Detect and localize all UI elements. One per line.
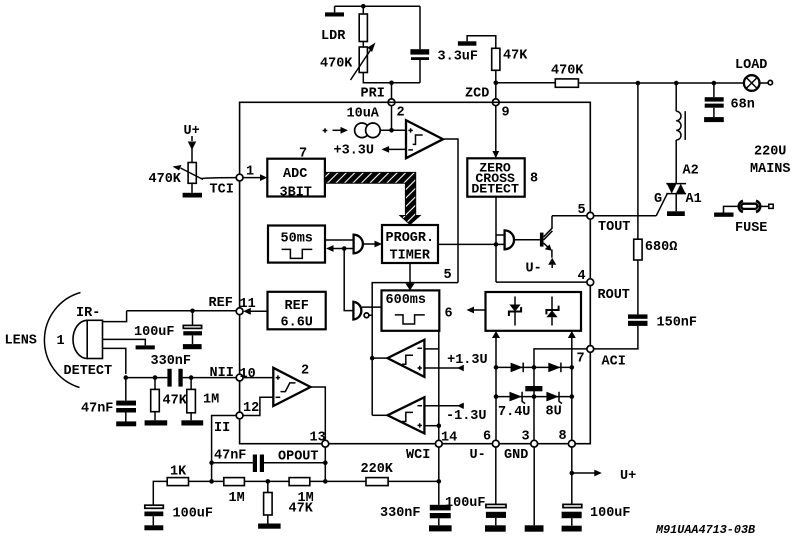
wire rail: [244, 480, 289, 482]
svg-text:470K: 470K: [149, 172, 182, 187]
svg-text:MAINS: MAINS: [750, 162, 791, 177]
resistor 1K: [167, 465, 188, 486]
svg-text:1M: 1M: [298, 491, 314, 506]
svg-text:600ms: 600ms: [386, 293, 427, 308]
capacitor 330nF (WCI): [380, 505, 452, 532]
svg-text:6.6U: 6.6U: [281, 316, 313, 331]
svg-text:470K: 470K: [551, 64, 584, 79]
resistor LDR: [321, 14, 367, 44]
zener row 7.4U / 8U: [494, 394, 574, 399]
svg-text:A1: A1: [686, 192, 702, 207]
triac A2/A1/G: [654, 163, 702, 216]
wire pin12 to op-amp: [243, 397, 273, 415]
svg-text:M91UAA4713-03B: M91UAA4713-03B: [655, 523, 755, 537]
node REF pin 11: [209, 296, 256, 315]
node junction above LDR: [361, 4, 366, 9]
junction inductor branch: [674, 81, 679, 86]
capacitor 100uF (V+): [562, 504, 631, 531]
svg-text:GND: GND: [504, 448, 528, 463]
svg-text:2: 2: [301, 364, 309, 379]
wire top rail: [335, 5, 420, 7]
svg-text:150nF: 150nF: [657, 316, 698, 331]
wire AND1 to timer with arrow: [363, 241, 382, 248]
signal ground bar (lead 2): [136, 345, 155, 349]
svg-text:1M: 1M: [229, 491, 245, 506]
svg-text:5: 5: [444, 268, 452, 283]
svg-text:REF: REF: [285, 299, 309, 314]
svg-text:12: 12: [243, 401, 259, 416]
wire comp2 plus to WCI rail: [424, 423, 441, 428]
svg-text:A2: A2: [683, 163, 699, 178]
mains terminal bar (top left): [325, 6, 344, 16]
diode D3: [511, 363, 524, 373]
svg-text:FUSE: FUSE: [735, 221, 767, 236]
resistor 470K (load line): [551, 64, 584, 88]
ground pin 3: [525, 447, 544, 532]
block 50ms one-shot: [268, 226, 325, 263]
svg-text:68n: 68n: [731, 98, 755, 113]
wire pin10 to op-amp: [243, 377, 273, 379]
svg-text:ACI: ACI: [602, 354, 626, 369]
svg-text:ZCD: ZCD: [465, 86, 489, 101]
svg-text:9: 9: [502, 105, 510, 120]
svg-text:220U: 220U: [754, 144, 786, 159]
capacitor 68n: [704, 83, 755, 122]
resistor 1M (b): [289, 478, 314, 506]
junction PRI to comparator: [389, 106, 394, 133]
wire block left pin down with arrow: [492, 331, 500, 440]
block ZERO CROSS DETECT pin 8: [467, 158, 538, 196]
junction bottom rail pin13: [323, 479, 328, 484]
wire WCI rail (600ms to pin 14): [438, 331, 440, 441]
wire pin1 to ADC with arrow: [243, 174, 267, 181]
and-gate U2 (600ms input): [353, 302, 381, 320]
svg-text:13: 13: [310, 430, 326, 445]
wire PRI drop: [391, 83, 393, 99]
svg-text:11: 11: [240, 297, 256, 312]
resistor 47K (bottom): [258, 481, 314, 528]
svg-text:2: 2: [397, 106, 405, 121]
svg-text:TIMER: TIMER: [390, 249, 431, 264]
svg-text:10uA: 10uA: [347, 107, 380, 122]
resistor 680 ohm: [634, 83, 678, 314]
junction comp1 output: [370, 356, 375, 361]
svg-text:II: II: [214, 421, 230, 436]
svg-text:10: 10: [240, 367, 256, 382]
inductor: [676, 83, 685, 184]
potentiometer 470K: [149, 163, 204, 188]
svg-text:U-: U-: [526, 262, 542, 277]
wire LDR to pot: [362, 42, 364, 48]
svg-text:IR-: IR-: [76, 306, 100, 321]
and-gate U1 (timer input): [354, 235, 363, 254]
svg-text:100uF: 100uF: [590, 506, 631, 521]
wire ZCD block to gate: [494, 197, 505, 282]
block ADC 3BIT pin 7: [267, 147, 325, 201]
svg-text:100uF: 100uF: [134, 325, 175, 340]
capacitor 150nF: [594, 314, 697, 349]
wire ZCD to detect block: [492, 106, 499, 159]
node V- pin 6: [470, 430, 500, 463]
comparator -1.3U: [372, 397, 424, 433]
text -1.3U with arrow: [424, 403, 486, 424]
svg-text:6: 6: [445, 307, 453, 322]
wire ACI internal: [534, 349, 587, 440]
variable resistor 470K (LDR trim): [320, 43, 376, 81]
node PRI pin 2: [361, 87, 405, 121]
svg-text:47nF: 47nF: [214, 449, 246, 464]
svg-text:50ms: 50ms: [281, 232, 313, 247]
wire TOUT from collector: [552, 215, 587, 217]
svg-text:LENS: LENS: [5, 334, 37, 349]
capacitor 100uF (bottom left): [144, 505, 213, 530]
svg-text:DETECT: DETECT: [64, 364, 113, 379]
wire sensor lead 2: [103, 339, 146, 345]
junction 1M branch: [189, 375, 194, 380]
comparator +1.3U: [372, 340, 424, 377]
capacitor 47nF (detector): [81, 378, 136, 427]
capacitor 47nF (OPOUT): [212, 455, 326, 473]
wire REF rail: [127, 310, 237, 312]
diode row pin6 to pin8: [494, 365, 574, 370]
arrow U+: [572, 469, 636, 484]
wire feedback down to AND2: [344, 249, 353, 311]
text 220U MAINS: [750, 144, 791, 177]
wire pot to PRI: [363, 73, 420, 83]
svg-text:7: 7: [577, 351, 585, 366]
svg-text:47K: 47K: [163, 393, 188, 408]
transistor Q1: [540, 216, 553, 258]
junction feedback: [342, 246, 347, 251]
svg-text:8U: 8U: [546, 404, 562, 419]
svg-text:8: 8: [559, 429, 567, 444]
wire 47K to ZCD: [495, 70, 497, 99]
wire comparator outputs rail: [371, 315, 373, 415]
svg-text:680Ω: 680Ω: [645, 240, 677, 255]
junction OPOUT: [323, 460, 328, 465]
V- arrow under emitter: [526, 258, 557, 277]
wire rail to 220K: [310, 480, 366, 482]
wire ROUT: [496, 281, 587, 283]
wire sensor lead 1: [103, 311, 127, 322]
wire U+ arrow to pot: [188, 136, 196, 163]
capacitor 3.3uF: [410, 6, 478, 83]
junction 68n branch: [712, 81, 717, 86]
junction 680R branch: [636, 81, 641, 86]
wire 220K to WCI: [388, 480, 439, 482]
lens arc: [44, 293, 80, 388]
wire timer to gate: [438, 243, 505, 245]
node TCI pin 1: [210, 164, 255, 197]
resistor 47K (ZCD): [492, 48, 529, 70]
svg-text:1: 1: [57, 334, 65, 349]
text +1.3U with arrow: [424, 353, 487, 371]
svg-text:U+: U+: [620, 469, 636, 484]
junction PRI: [389, 81, 394, 86]
wire ZCD to 470K: [496, 82, 556, 84]
svg-text:WCI: WCI: [406, 448, 430, 463]
block diode clamp: [486, 292, 582, 331]
resistor 1M (NII): [181, 378, 219, 426]
wire WCI down: [438, 447, 440, 505]
node ACI pin 7: [577, 346, 626, 370]
node pin 8: [559, 429, 576, 447]
block 600ms one-shot pin 6: [382, 290, 453, 330]
svg-text:-1.3U: -1.3U: [446, 409, 487, 424]
block REF 6.6U pin 11: [243, 292, 326, 331]
node II pin 12: [214, 401, 259, 436]
node OPOUT pin 13: [278, 430, 329, 464]
resistor 47K (NII): [145, 378, 188, 426]
svg-text:330nF: 330nF: [151, 354, 192, 369]
svg-text:+3.3U: +3.3U: [334, 143, 375, 158]
svg-text:3.3uF: 3.3uF: [438, 50, 479, 65]
svg-text:TOUT: TOUT: [598, 220, 630, 235]
svg-text:DETECT: DETECT: [471, 182, 519, 197]
junction U+ takeoff: [570, 471, 575, 476]
resistor 1M (a): [224, 478, 245, 506]
node ROUT pin 4: [578, 269, 630, 303]
svg-text:ROUT: ROUT: [598, 288, 630, 303]
wire comparator output to node5 net: [444, 139, 458, 283]
lamp LOAD: [735, 58, 773, 91]
wire comp1 minus to WCI rail: [424, 348, 438, 350]
IC boundary: [240, 102, 591, 443]
capacitor 100uF (REF): [134, 311, 202, 349]
and-gate U3 (output driver): [505, 230, 514, 249]
svg-text:1K: 1K: [170, 465, 187, 480]
svg-text:470K: 470K: [320, 57, 353, 72]
diode D4: [548, 363, 561, 373]
svg-text:6: 6: [483, 430, 491, 445]
node NII pin 10: [210, 366, 256, 382]
wire pin8 down: [571, 447, 573, 504]
svg-text:1M: 1M: [203, 392, 219, 407]
svg-text:8: 8: [530, 171, 538, 186]
node TOUT pin 5: [578, 203, 631, 235]
svg-text:ADC: ADC: [283, 167, 307, 182]
wire triac gate: [656, 194, 667, 216]
zener D1 (in block, down): [509, 297, 521, 326]
op-amp 2: [273, 364, 310, 407]
wire pot wiper to pin1: [201, 177, 236, 180]
hatched bus arrow ADC to timer: [325, 172, 420, 224]
junction 100uF top: [190, 309, 195, 314]
wire TOUT to gate: [594, 215, 657, 217]
IR detector sensor: [57, 306, 113, 379]
wire II external: [212, 416, 237, 482]
junction ZCD rail: [494, 81, 499, 86]
comparator PRI (hysteresis): [406, 120, 443, 158]
wire AND2 bubble to node5 net: [369, 283, 458, 316]
substrate bar: [525, 386, 542, 391]
node ZCD pin 9: [465, 86, 510, 120]
junction WCI bottom: [437, 479, 442, 484]
svg-text:PROGR.: PROGR.: [386, 231, 435, 246]
svg-text:NII: NII: [210, 366, 234, 381]
wire block right pin down with arrow: [568, 331, 576, 440]
svg-text:LDR: LDR: [321, 29, 346, 44]
wire 50ms to AND1: [325, 239, 354, 241]
wire block left stub with arrow: [467, 307, 486, 314]
svg-text:47K: 47K: [503, 48, 528, 63]
zener D2 (in block, up): [546, 297, 558, 326]
svg-text:TCI: TCI: [210, 182, 234, 197]
svg-text:330nF: 330nF: [380, 506, 421, 521]
junction NII lead3: [124, 375, 129, 380]
wire NII rail: [126, 377, 236, 379]
junction 47K branch: [266, 479, 271, 484]
svg-text:REF: REF: [209, 296, 233, 311]
zener Z1 7.4U: [498, 392, 530, 420]
junction 47K branch: [153, 375, 158, 380]
svg-text:3BIT: 3BIT: [280, 186, 312, 201]
capacitor 100uF (V-): [445, 447, 506, 532]
mains terminal bar (47K top): [458, 36, 496, 49]
svg-text:+1.3U: +1.3U: [447, 353, 488, 368]
wire op-amp output to pin13: [311, 387, 326, 440]
svg-text:U-: U-: [470, 448, 486, 463]
node WCI pin 14: [406, 430, 457, 463]
wire bottom rail: [189, 480, 224, 482]
wire sensor lead 3: [103, 348, 126, 374]
fuse FUSE: [714, 201, 773, 236]
ground pot: [183, 183, 202, 197]
capacitor 330nF (NII): [151, 354, 192, 387]
svg-text:PRI: PRI: [361, 87, 385, 102]
svg-text:220K: 220K: [361, 462, 394, 477]
wire LDR top: [362, 6, 364, 14]
wire 1K left to 100uF: [153, 481, 167, 505]
junction II/OPOUT: [209, 460, 214, 465]
current source 10uA: [323, 107, 406, 138]
svg-text:LOAD: LOAD: [735, 58, 767, 73]
wire AND1 retrigger with arrow: [326, 245, 354, 252]
wire gate to transistor: [514, 239, 540, 241]
node GND pin 3: [504, 430, 538, 463]
svg-text:47nF: 47nF: [81, 402, 113, 417]
svg-text:7: 7: [299, 147, 307, 162]
svg-text:14: 14: [441, 430, 457, 445]
text +3.3U with arrow: [334, 143, 407, 158]
svg-text:100uF: 100uF: [445, 496, 486, 511]
wire pin13 down: [324, 447, 326, 481]
resistor 220K: [361, 462, 394, 486]
svg-text:3: 3: [522, 430, 530, 445]
wire load rail: [578, 82, 743, 84]
svg-text:7.4U: 7.4U: [498, 405, 530, 420]
zener Z2 8U: [546, 392, 563, 420]
block PROGR. TIMER: [382, 225, 438, 264]
junction II bottom: [209, 479, 214, 484]
wire timer to 600ms with arrow: [406, 263, 415, 290]
svg-text:100uF: 100uF: [173, 506, 214, 521]
